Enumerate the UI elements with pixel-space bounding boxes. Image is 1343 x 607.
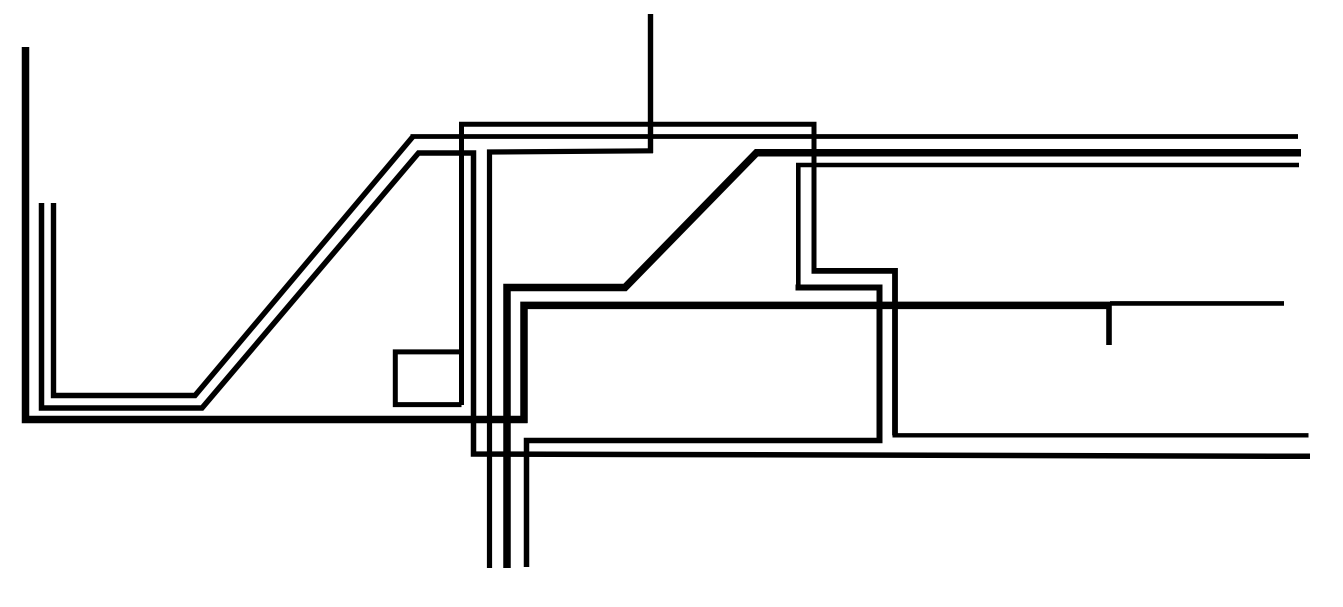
wire W4: small rectangle tab on vertical V1 — [395, 352, 461, 405]
wire W6c: mid horizontal y=440 back left and drop x=526.5 to bottom — [527, 441, 883, 568]
wire W1: thick left vertical with bottom horizontal run to x=527 — [26, 47, 528, 420]
wire W5b: box step right and down x=895 — [812, 271, 896, 436]
wire W11: thinner continuation of middle horizontal to x=1284 — [1110, 301, 1284, 306]
wire W9: thick path: top right horizontal h2, 45-degree diagonal, left run y=287.5, thick drop x=507 — [507, 153, 1301, 568]
wire W2: outer thin pair: vertical x=41.5, bottom run y=408, diagonal, top run y=153, drop x=473.5, long bottom horizontal — [42, 153, 1311, 456]
wire W8: short top vertical stub x=650.5 — [648, 14, 653, 153]
wire W5c: lower right horizontal to x=1308 — [893, 433, 1309, 437]
wire W6b: step across y=287.5 and down x=879.5 — [796, 288, 880, 441]
wire W3b: long top horizontal h1 — [411, 134, 1299, 139]
wire W3: inner thin pair: vertical x=53.5, bottom run y=395.5, diagonal up to h1 — [54, 137, 414, 396]
wire W10: thick middle horizontal y=305.4 with drop x=524 ending at thick bottom line — [524, 305, 1110, 423]
wire W5: box outline: V1 down, top edge y=124, right vertical x=814 — [462, 124, 815, 405]
wire W6: h3 right segment + vertical drop x=798 — [798, 165, 1299, 288]
wire W12: short tick hanging below middle horizontal at x=1109 — [1106, 305, 1112, 345]
wire W7: h3 middle segment + vertical V3 to bottom — [490, 151, 654, 568]
